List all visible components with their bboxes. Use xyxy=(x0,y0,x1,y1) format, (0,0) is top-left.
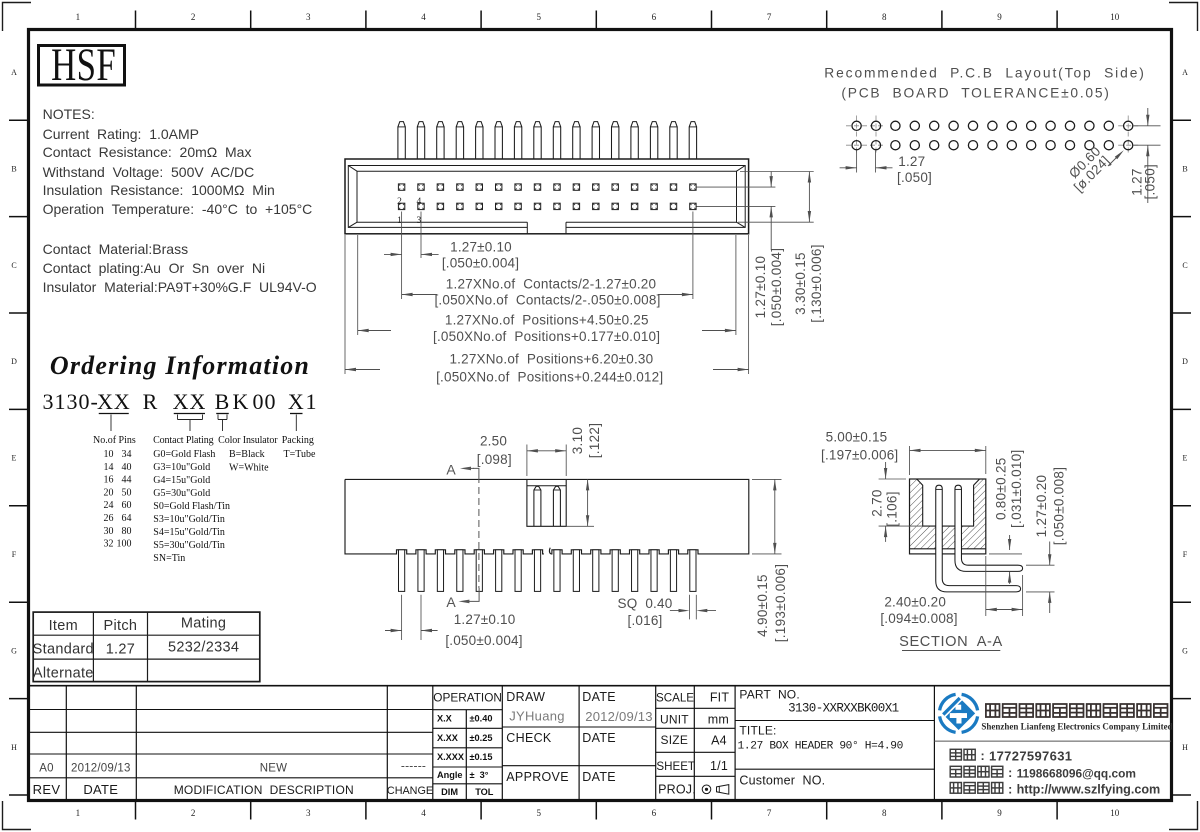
svg-text:NEW: NEW xyxy=(260,762,287,774)
front view: 16 bottom pins xyxy=(399,550,405,592)
top view dimension: positions+4.50 xyxy=(358,330,391,332)
svg-text:3: 3 xyxy=(306,808,311,818)
svg-text:10: 10 xyxy=(1110,808,1120,818)
svg-text:[.098]: [.098] xyxy=(477,452,512,467)
svg-text:Shenzhen Lianfeng Electronics: Shenzhen Lianfeng Electronics Company Li… xyxy=(981,722,1172,732)
svg-text:2: 2 xyxy=(191,808,196,818)
section A-A dimension: pin offset 0.80 xyxy=(989,553,1022,555)
svg-text:REV: REV xyxy=(33,782,61,797)
svg-text:±0.15: ±0.15 xyxy=(470,752,493,762)
svg-text:D: D xyxy=(11,357,17,366)
top view: body middle rectangle with key slot gap xyxy=(348,166,745,228)
svg-text:SECTION A-A: SECTION A-A xyxy=(899,634,1003,650)
svg-text:H: H xyxy=(11,743,17,752)
svg-text:3130-XXRXXBK00X1: 3130-XXRXXBK00X1 xyxy=(788,702,899,716)
svg-text:2012/09/13: 2012/09/13 xyxy=(585,709,653,724)
PCB layout dimension: hole diameter leader xyxy=(1108,153,1121,166)
svg-text:2: 2 xyxy=(191,12,196,22)
svg-text:F: F xyxy=(12,550,17,559)
svg-text:D: D xyxy=(1182,357,1188,366)
svg-text:Pitch: Pitch xyxy=(104,618,138,634)
svg-text:16: 16 xyxy=(104,475,114,486)
svg-text:TOL: TOL xyxy=(475,787,494,797)
section A-A dimension: width 5.00 xyxy=(909,446,911,475)
svg-text:SCALE: SCALE xyxy=(656,692,694,705)
top view: extension lines right of body xyxy=(740,171,814,173)
svg-text:20: 20 xyxy=(104,487,114,498)
svg-text:NOTES:: NOTES: xyxy=(43,106,95,122)
svg-text:Current Rating: 1.0AMP: Current Rating: 1.0AMP xyxy=(43,126,199,142)
svg-text:SQ 0.40: SQ 0.40 xyxy=(618,596,673,611)
svg-text:B: B xyxy=(1182,164,1187,173)
PCB layout: hole centerlines xyxy=(846,125,886,127)
title block: operation tolerance rows xyxy=(433,709,503,711)
front view: key slot contacts xyxy=(534,486,541,526)
top view: cavity rectangle with key slot gap xyxy=(357,171,737,222)
svg-text:1/1: 1/1 xyxy=(710,759,728,773)
svg-text:PROJ.: PROJ. xyxy=(658,783,696,797)
svg-text:1.27: 1.27 xyxy=(898,154,925,169)
svg-text:S0=Gold Flash/Tin: S0=Gold Flash/Tin xyxy=(153,501,230,512)
svg-text::: : xyxy=(1008,766,1012,780)
svg-text:26: 26 xyxy=(104,513,114,524)
front view dimension: SQ 0.40 pin xyxy=(689,595,691,620)
svg-text:[.050XNo.of Contacts/2-.050±0: [.050XNo.of Contacts/2-.050±0.008] xyxy=(434,293,660,308)
svg-text:A: A xyxy=(11,68,17,77)
svg-text:[.130±0.006]: [.130±0.006] xyxy=(809,244,824,323)
svg-text:X.X: X.X xyxy=(437,714,453,724)
svg-text:G0=Gold Flash: G0=Gold Flash xyxy=(153,449,215,460)
top view: extension lines below body xyxy=(344,235,346,374)
svg-text:TITLE:: TITLE: xyxy=(739,724,776,738)
svg-text:S5=30u"Gold/Tin: S5=30u"Gold/Tin xyxy=(153,540,225,551)
svg-text:5232/2334: 5232/2334 xyxy=(168,639,239,655)
svg-text:A0: A0 xyxy=(39,762,53,774)
svg-text:B: B xyxy=(215,389,231,414)
svg-text:Item: Item xyxy=(49,618,78,634)
svg-text:G5=30u"Gold: G5=30u"Gold xyxy=(153,488,210,499)
top view: key slot walls xyxy=(526,222,528,234)
svg-text:1.27XNo.of Contacts/2-1.27±0.: 1.27XNo.of Contacts/2-1.27±0.20 xyxy=(446,277,656,292)
PCB layout dimension: 1.27 row pitch right xyxy=(1133,125,1161,127)
svg-text:6: 6 xyxy=(652,808,657,818)
company chinese name (synthetic glyphs) xyxy=(986,704,1000,717)
svg-text:1.27 BOX HEADER 90° H=4.90: 1.27 BOX HEADER 90° H=4.90 xyxy=(738,741,904,753)
section A-A: rear pin (bent, upper) xyxy=(955,485,1023,571)
svg-text:Contact Material:Brass: Contact Material:Brass xyxy=(43,241,189,257)
svg-text:5: 5 xyxy=(536,12,541,22)
svg-text:APPROVE: APPROVE xyxy=(506,770,569,784)
front view dimension: pin pitch 1.27 xyxy=(401,595,403,640)
svg-text:17727597631: 17727597631 xyxy=(989,748,1072,763)
svg-text:[.193±0.006]: [.193±0.006] xyxy=(773,564,788,643)
top view dimension: contacts row length xyxy=(402,294,437,296)
item pitch mating table xyxy=(33,612,260,682)
title block: scale column rows xyxy=(656,707,735,709)
svg-text:3.30±0.15: 3.30±0.15 xyxy=(793,252,808,315)
svg-text:Contact Plating: Contact Plating xyxy=(153,435,214,446)
svg-text:Contact plating:Au Or Sn o: Contact plating:Au Or Sn over Ni xyxy=(43,260,266,276)
svg-text:A: A xyxy=(446,594,456,610)
svg-text:2.50: 2.50 xyxy=(480,434,507,449)
svg-text:[.050]: [.050] xyxy=(897,170,932,185)
svg-text:HSF: HSF xyxy=(51,38,116,90)
svg-text:±0.25: ±0.25 xyxy=(470,733,493,743)
svg-text:Alternate: Alternate xyxy=(33,665,94,681)
svg-text:G4=15u"Gold: G4=15u"Gold xyxy=(153,475,210,486)
svg-text:W=White: W=White xyxy=(229,463,269,474)
svg-text:Withstand Voltage: 500V AC/: Withstand Voltage: 500V AC/DC xyxy=(43,164,255,180)
front view dimension: key slot 2.50 xyxy=(526,445,528,477)
front view: section line A-A xyxy=(478,476,480,588)
svg-text:30: 30 xyxy=(104,526,114,537)
svg-text:Operation Temperature: -40°C: Operation Temperature: -40°C to +105°C xyxy=(43,201,313,217)
svg-text:Recommended P.C.B Layout(Top: Recommended P.C.B Layout(Top Side) xyxy=(824,66,1146,81)
title block: part-no column rows xyxy=(735,720,934,722)
svg-text:2.40±0.20: 2.40±0.20 xyxy=(884,595,946,610)
svg-text:JYHuang: JYHuang xyxy=(509,709,565,724)
frame column ticks and numbers xyxy=(135,11,137,29)
front view dimension: height 4.90 xyxy=(752,478,782,480)
svg-text:1.27±0.20: 1.27±0.20 xyxy=(1034,475,1049,538)
svg-text:SN=Tin: SN=Tin xyxy=(153,553,185,564)
svg-text:Customer NO.: Customer NO. xyxy=(739,774,825,788)
title block grid xyxy=(29,685,1171,687)
svg-text:------: ------ xyxy=(401,759,426,773)
front view: body bottom edge left of break xyxy=(345,479,551,554)
svg-text:CHECK: CHECK xyxy=(506,731,552,745)
svg-text:9: 9 xyxy=(997,12,1002,22)
svg-text:MODIFICATION DESCRIPTION: MODIFICATION DESCRIPTION xyxy=(174,783,354,797)
svg-text:9: 9 xyxy=(997,808,1002,818)
svg-text:DATE: DATE xyxy=(83,782,118,797)
svg-text:SHEET: SHEET xyxy=(656,760,695,773)
top view dimension: row pitch 1.27 vertical xyxy=(770,172,772,188)
svg-text:G: G xyxy=(1182,646,1188,655)
svg-text:A: A xyxy=(1182,68,1188,77)
contact: website xyxy=(950,783,961,794)
svg-text:[.050XNo.of Positions+0.244±0: [.050XNo.of Positions+0.244±0.012] xyxy=(436,370,663,385)
svg-text:3.10: 3.10 xyxy=(570,427,585,454)
svg-text:Angle: Angle xyxy=(437,770,463,780)
svg-text:3: 3 xyxy=(306,12,311,22)
svg-text:[.050XNo.of Positions+0.177±0: [.050XNo.of Positions+0.177±0.010] xyxy=(433,329,660,344)
svg-text:DATE: DATE xyxy=(582,731,616,745)
top view dimension: cavity height 3.30 xyxy=(808,172,810,223)
svg-text:44: 44 xyxy=(122,475,132,486)
front view: key slot xyxy=(527,479,566,526)
svg-text:32: 32 xyxy=(104,539,114,550)
svg-text:H: H xyxy=(1182,743,1188,752)
underlines under coded fields xyxy=(99,413,129,415)
front view dimension: slot depth 3.10 xyxy=(566,525,594,527)
svg-text:8: 8 xyxy=(882,808,887,818)
svg-text:[.106]: [.106] xyxy=(884,491,899,527)
svg-text:10: 10 xyxy=(1110,12,1120,22)
svg-text:7: 7 xyxy=(767,12,772,22)
svg-text:mm: mm xyxy=(708,713,729,727)
svg-text:UNIT: UNIT xyxy=(660,713,689,727)
svg-text:F: F xyxy=(1183,550,1188,559)
svg-text:CHANGE: CHANGE xyxy=(387,785,433,797)
svg-text:Contact Resistance: 20mΩ Ma: Contact Resistance: 20mΩ Max xyxy=(43,144,252,160)
svg-text:Insulator Material:PA9T+30%G.: Insulator Material:PA9T+30%G.F UL94V-O xyxy=(43,279,317,295)
svg-text:[.050]: [.050] xyxy=(1143,164,1158,200)
svg-text:8: 8 xyxy=(882,12,887,22)
svg-text:1.27±0.10: 1.27±0.10 xyxy=(753,256,768,319)
section A-A dimension: cavity depth 2.70 xyxy=(879,478,906,480)
section A-A dimension: pin length 2.40 xyxy=(985,556,987,616)
svg-text:K: K xyxy=(233,389,250,414)
svg-text:Packing: Packing xyxy=(282,435,314,446)
svg-text:C: C xyxy=(1182,261,1187,270)
frame row ticks and letters xyxy=(9,119,28,121)
svg-text:[.094±0.008]: [.094±0.008] xyxy=(880,611,957,626)
svg-text:[.197±0.006]: [.197±0.006] xyxy=(821,447,898,462)
svg-text:1.27±0.10: 1.27±0.10 xyxy=(454,612,516,627)
sheet corner marks xyxy=(3,3,32,32)
svg-text::: : xyxy=(981,749,985,763)
svg-text:4: 4 xyxy=(421,808,426,818)
section A-A: front pin (bent, lower) xyxy=(936,485,1021,592)
contact: phone xyxy=(950,749,961,760)
leader lines to option lists xyxy=(110,415,112,432)
svg-text:1: 1 xyxy=(76,808,81,818)
svg-text:[.050±0.004]: [.050±0.004] xyxy=(769,248,784,327)
svg-text:60: 60 xyxy=(122,500,132,511)
svg-text:2.70: 2.70 xyxy=(870,489,885,516)
svg-text:100: 100 xyxy=(117,539,132,550)
svg-text:FIT: FIT xyxy=(710,691,730,705)
svg-text:Mating: Mating xyxy=(181,615,226,631)
svg-text:DRAW: DRAW xyxy=(506,690,545,704)
svg-text:0.80±0.25: 0.80±0.25 xyxy=(993,457,1008,520)
svg-text:10: 10 xyxy=(104,449,114,460)
svg-text:[.031±0.010]: [.031±0.010] xyxy=(1009,449,1024,528)
svg-text:24: 24 xyxy=(104,500,114,511)
top view dimension: 1.27 pitch (contacts 1-3) xyxy=(384,253,402,255)
front view: body with pin notches xyxy=(345,479,749,554)
svg-text:T=Tube: T=Tube xyxy=(284,449,317,460)
svg-text::: : xyxy=(1008,782,1012,796)
svg-text:Color Insulator: Color Insulator xyxy=(218,435,278,446)
svg-text:X: X xyxy=(288,389,305,414)
section A-A dimension: pin row pitch 1.27 xyxy=(1026,564,1055,566)
svg-text:XX: XX xyxy=(173,389,207,414)
PCB layout dimension: 1.27 hole pitch xyxy=(856,151,858,173)
top view: 16 upper pins xyxy=(398,122,405,159)
projection symbol xyxy=(702,785,711,794)
svg-text:[.050±0.004]: [.050±0.004] xyxy=(442,256,519,271)
section A-A: hatched insulator body xyxy=(910,479,986,549)
svg-text:XX: XX xyxy=(97,389,131,414)
svg-text:[.016]: [.016] xyxy=(628,613,663,628)
svg-text:14: 14 xyxy=(104,462,114,473)
svg-text:E: E xyxy=(12,454,17,463)
svg-text:1.27XNo.of Positions+4.50±0.2: 1.27XNo.of Positions+4.50±0.25 xyxy=(445,313,649,328)
svg-text:1: 1 xyxy=(306,389,318,414)
svg-text:Standard: Standard xyxy=(33,641,94,657)
svg-text:DATE: DATE xyxy=(582,770,616,784)
title block: left rev-table rows xyxy=(29,709,433,711)
svg-text:G3=10u"Gold: G3=10u"Gold xyxy=(153,462,210,473)
svg-text:6: 6 xyxy=(652,12,657,22)
svg-text:4: 4 xyxy=(417,197,422,207)
svg-text:[.050±0.004]: [.050±0.004] xyxy=(445,633,522,648)
svg-text:7: 7 xyxy=(767,808,772,818)
svg-text:B: B xyxy=(11,164,16,173)
svg-text:1.27: 1.27 xyxy=(106,641,135,657)
svg-text:±0.40: ±0.40 xyxy=(470,714,493,724)
HSF logo text xyxy=(51,38,116,90)
svg-text:± 3°: ± 3° xyxy=(470,770,489,780)
svg-text:1.27±0.10: 1.27±0.10 xyxy=(450,240,512,255)
svg-text:X.XX: X.XX xyxy=(437,733,459,743)
svg-text:SIZE: SIZE xyxy=(661,733,688,747)
svg-text:A4: A4 xyxy=(711,734,727,748)
svg-text:OPERATION: OPERATION xyxy=(433,691,502,705)
svg-text:5.00±0.15: 5.00±0.15 xyxy=(826,430,888,445)
PCB layout: holes 2 rows x 15 xyxy=(852,121,861,130)
svg-text:[.050±0.008]: [.050±0.008] xyxy=(1051,467,1066,546)
svg-text:X.XXX: X.XXX xyxy=(437,752,465,762)
svg-text:E: E xyxy=(1183,454,1188,463)
svg-text:S4=15u"Gold/Tin: S4=15u"Gold/Tin xyxy=(153,527,225,538)
section A-A: body outline xyxy=(910,479,986,554)
company logo xyxy=(940,694,978,732)
title block: company divider xyxy=(934,740,1171,742)
svg-text:PART NO.: PART NO. xyxy=(739,687,799,701)
svg-text:(PCB BOARD TOLERANCE±0.05): (PCB BOARD TOLERANCE±0.05) xyxy=(841,86,1110,101)
svg-text:C: C xyxy=(11,261,16,270)
top view: connector body outer rectangle xyxy=(345,159,749,234)
svg-text:DIM: DIM xyxy=(441,787,458,797)
svg-text:B=Black: B=Black xyxy=(229,449,265,460)
svg-text:3130-: 3130- xyxy=(43,389,99,414)
svg-text:[.122]: [.122] xyxy=(587,423,602,459)
svg-text:40: 40 xyxy=(122,462,132,473)
contact: email xyxy=(950,766,961,777)
svg-text:2012/09/13: 2012/09/13 xyxy=(71,762,131,774)
svg-text:R: R xyxy=(143,389,159,414)
svg-text:80: 80 xyxy=(122,526,132,537)
svg-text:4.90±0.15: 4.90±0.15 xyxy=(755,574,770,637)
svg-text:50: 50 xyxy=(122,487,132,498)
svg-text:No.of Pins: No.of Pins xyxy=(93,435,136,446)
svg-text:1198668096@qq.com: 1198668096@qq.com xyxy=(1017,766,1136,780)
svg-text:A: A xyxy=(446,462,456,478)
HSF logo box xyxy=(39,46,125,86)
svg-text:00: 00 xyxy=(253,389,277,414)
svg-text:G: G xyxy=(11,646,17,655)
svg-text:Ordering Information: Ordering Information xyxy=(50,351,310,380)
svg-text:2: 2 xyxy=(397,197,402,207)
svg-text:4: 4 xyxy=(421,12,426,22)
svg-text:34: 34 xyxy=(122,449,132,460)
svg-text:DATE: DATE xyxy=(582,690,616,704)
svg-text:64: 64 xyxy=(122,513,132,524)
svg-text:1.27XNo.of Positions+6.20±0.3: 1.27XNo.of Positions+6.20±0.30 xyxy=(449,352,653,367)
svg-text:S3=10u"Gold/Tin: S3=10u"Gold/Tin xyxy=(153,514,225,525)
top view: corner chamfers xyxy=(348,166,357,172)
svg-text:5: 5 xyxy=(536,808,541,818)
svg-text:Insulation Resistance: 1000M: Insulation Resistance: 1000MΩ Min xyxy=(43,182,275,198)
svg-text:1: 1 xyxy=(76,12,81,22)
top view dimension: positions+6.20 xyxy=(345,369,380,371)
svg-text:http://www.szlfying.com: http://www.szlfying.com xyxy=(1017,783,1161,797)
title block: draw column rows xyxy=(502,726,655,728)
